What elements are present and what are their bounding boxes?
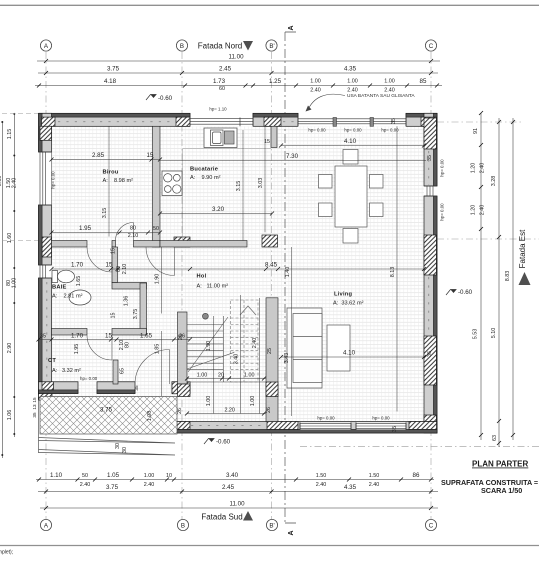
stove bbox=[162, 171, 182, 196]
pier hatch hol NW bbox=[174, 237, 190, 247]
interior dim texts bbox=[40, 138, 357, 357]
svg-text:3.15: 3.15 bbox=[236, 181, 242, 192]
svg-text:B': B' bbox=[269, 523, 274, 530]
stair dims bbox=[187, 295, 266, 414]
up arrow bbox=[240, 306, 256, 315]
ROOM LABELS bbox=[48, 167, 364, 382]
svg-text:hp= 1.10: hp= 1.10 bbox=[209, 107, 227, 112]
svg-text:2.40: 2.40 bbox=[369, 482, 380, 488]
svg-text:B': B' bbox=[269, 43, 274, 50]
interior partition P1 birou/bucatarie bbox=[153, 126, 161, 247]
svg-text:hp= 0.00: hp= 0.00 bbox=[80, 376, 98, 381]
stair break lines bbox=[188, 317, 228, 372]
svg-text:4.35: 4.35 bbox=[344, 484, 357, 491]
facade labels bbox=[198, 41, 531, 522]
kitchen window top wall bbox=[190, 118, 253, 127]
section line A-A bbox=[285, 25, 296, 535]
svg-text:hp= 0.00: hp= 0.00 bbox=[344, 128, 362, 133]
svg-text:Fatada Nord: Fatada Nord bbox=[198, 42, 242, 51]
svg-text:1.70: 1.70 bbox=[71, 262, 84, 269]
svg-text:2.40: 2.40 bbox=[480, 163, 486, 174]
pier hatch hol NE bbox=[262, 235, 278, 247]
svg-text:80: 80 bbox=[130, 226, 136, 232]
svg-text:80: 80 bbox=[125, 342, 131, 348]
svg-text:15: 15 bbox=[147, 152, 154, 159]
baie window left wall bbox=[39, 265, 52, 278]
svg-text:2.45: 2.45 bbox=[219, 66, 232, 73]
svg-text:1.00: 1.00 bbox=[144, 473, 155, 479]
svg-text:2.90: 2.90 bbox=[7, 343, 13, 354]
partition P2 baie stub bbox=[112, 247, 118, 283]
svg-text:2.40: 2.40 bbox=[480, 205, 486, 216]
svg-text:hp= 0.00: hp= 0.00 bbox=[440, 159, 445, 177]
svg-text:35: 35 bbox=[427, 155, 433, 161]
svg-text:20: 20 bbox=[218, 373, 224, 379]
svg-text:3.75: 3.75 bbox=[107, 66, 120, 73]
svg-text:2.40: 2.40 bbox=[347, 88, 358, 94]
pier hatch at B' bbox=[264, 117, 281, 126]
svg-text:15: 15 bbox=[105, 333, 112, 340]
SOFA living bbox=[287, 308, 322, 388]
left wall pier hatch bottom corner bbox=[39, 389, 53, 400]
svg-text:1.00: 1.00 bbox=[206, 396, 212, 407]
svg-text:hp= 0.00: hp= 0.00 bbox=[317, 416, 335, 421]
svg-text:1.00: 1.00 bbox=[197, 373, 208, 379]
svg-text:2.10: 2.10 bbox=[122, 264, 128, 275]
svg-text:C: C bbox=[429, 43, 434, 50]
svg-text:2.40: 2.40 bbox=[80, 482, 91, 488]
bottom wall CT/hol south bbox=[39, 382, 191, 394]
svg-text:4.18: 4.18 bbox=[104, 78, 117, 85]
svg-text:hp= 0.00: hp= 0.00 bbox=[372, 416, 390, 421]
svg-text:4.10: 4.10 bbox=[344, 138, 357, 145]
interior wall HW4 bucatarie south bbox=[160, 241, 247, 248]
svg-text:3.40: 3.40 bbox=[226, 472, 239, 479]
svg-text:1.15: 1.15 bbox=[7, 129, 13, 140]
svg-text:8.60: 8.60 bbox=[0, 176, 3, 187]
coffee table bbox=[327, 325, 350, 371]
top wall band A-B and B-B' bbox=[39, 113, 437, 126]
svg-text:25: 25 bbox=[267, 348, 273, 354]
svg-text:26: 26 bbox=[177, 408, 183, 414]
partition P3 bbox=[140, 283, 147, 335]
wall HW2 bbox=[112, 283, 147, 290]
svg-text:B: B bbox=[180, 43, 184, 50]
svg-text:3.20: 3.20 bbox=[212, 206, 225, 213]
svg-text:35: 35 bbox=[392, 426, 398, 432]
svg-text:50: 50 bbox=[82, 473, 88, 479]
svg-text:3.43: 3.43 bbox=[284, 353, 290, 364]
svg-text:A: 11.00 m²: A: 11.00 m² bbox=[197, 284, 229, 290]
newel post circle bbox=[203, 313, 209, 319]
svg-text:35: 35 bbox=[32, 412, 37, 418]
BAIE toilet bbox=[52, 270, 75, 283]
right wall window bbox=[424, 186, 437, 196]
svg-text:1.65: 1.65 bbox=[76, 276, 82, 287]
bottom frame line bbox=[0, 545, 539, 547]
svg-text:A: A bbox=[288, 530, 295, 535]
svg-text:1.73: 1.73 bbox=[213, 78, 226, 85]
svg-text:omplet);: omplet); bbox=[0, 550, 13, 556]
svg-text:35: 35 bbox=[391, 118, 397, 124]
svg-text:A: 2.81 m²: A: 2.81 m² bbox=[52, 294, 83, 300]
svg-text:35: 35 bbox=[40, 334, 46, 340]
bottom wall living + stairs bbox=[177, 422, 437, 434]
hp labels under top glass doors bbox=[308, 128, 399, 133]
svg-text:-0.60: -0.60 bbox=[458, 289, 473, 296]
svg-text:2.85: 2.85 bbox=[92, 152, 105, 159]
svg-text:63: 63 bbox=[492, 435, 498, 441]
corner pier hatch A bbox=[40, 117, 55, 140]
svg-text:1.25: 1.25 bbox=[269, 78, 282, 85]
living south windows bbox=[300, 423, 406, 430]
DIMENSIONS BOTTOM bbox=[36, 480, 438, 509]
right wall base bbox=[424, 113, 437, 433]
svg-text:36: 36 bbox=[427, 351, 433, 357]
svg-text:2.45: 2.45 bbox=[222, 484, 235, 491]
KITCHEN counter and sink bbox=[204, 128, 237, 148]
door arc hol big bbox=[146, 247, 175, 276]
BAIE sink bbox=[69, 290, 91, 305]
birou width row bbox=[39, 126, 427, 416]
terrace step triangles bbox=[39, 400, 176, 455]
svg-text:Living: Living bbox=[334, 292, 353, 298]
svg-text:2.40: 2.40 bbox=[12, 178, 18, 189]
svg-text:BAIE: BAIE bbox=[52, 285, 67, 291]
STAIRS bbox=[187, 316, 266, 382]
svg-text:Hol: Hol bbox=[197, 274, 207, 280]
svg-text:1.05: 1.05 bbox=[107, 472, 120, 479]
svg-text:A: 33.62 m²: A: 33.62 m² bbox=[333, 301, 364, 307]
svg-text:2.20: 2.20 bbox=[224, 408, 235, 414]
level mark -0.60 top bbox=[146, 95, 173, 103]
svg-text:1.50: 1.50 bbox=[316, 473, 327, 479]
kitchen tile boundary bbox=[183, 149, 271, 241]
svg-text:10: 10 bbox=[166, 473, 172, 479]
svg-text:1.20: 1.20 bbox=[471, 163, 477, 174]
svg-text:1.95: 1.95 bbox=[79, 225, 92, 232]
svg-text:4.35: 4.35 bbox=[344, 66, 357, 73]
svg-text:4.10: 4.10 bbox=[343, 350, 356, 357]
svg-text:A: 8.98 m²: A: 8.98 m² bbox=[103, 178, 134, 184]
svg-text:60: 60 bbox=[219, 86, 225, 92]
svg-text:91: 91 bbox=[473, 128, 479, 134]
svg-text:2.40: 2.40 bbox=[252, 338, 258, 349]
terrace hatch bbox=[40, 397, 177, 435]
title block bbox=[441, 460, 538, 496]
svg-text:3.28: 3.28 bbox=[491, 176, 497, 187]
svg-text:8.45: 8.45 bbox=[265, 262, 278, 269]
wall stub P6 below top wall bbox=[271, 126, 277, 147]
svg-text:1.90: 1.90 bbox=[206, 341, 212, 352]
svg-text:2.10: 2.10 bbox=[128, 233, 139, 239]
DIMENSIONS RIGHT bbox=[481, 113, 513, 447]
svg-text:CT: CT bbox=[48, 358, 56, 364]
svg-text:65: 65 bbox=[120, 368, 126, 374]
DIMENSIONS TOP bbox=[35, 61, 442, 86]
svg-text:15: 15 bbox=[111, 248, 117, 254]
door arc ct bbox=[87, 335, 112, 360]
door arc baie bbox=[87, 247, 112, 272]
svg-text:1.00: 1.00 bbox=[347, 79, 358, 85]
svg-text:Fatada Sud: Fatada Sud bbox=[201, 513, 242, 522]
pier hatch at B bbox=[176, 117, 190, 126]
floor texture interior bbox=[52, 126, 425, 421]
svg-text:3.40: 3.40 bbox=[234, 354, 240, 365]
wall HW3 ct north bbox=[52, 329, 88, 336]
svg-text:USA BATANTA SAU GLISANTA: USA BATANTA SAU GLISANTA bbox=[347, 93, 415, 99]
svg-text:hp= 0.00: hp= 0.00 bbox=[381, 128, 399, 133]
svg-text:2.40: 2.40 bbox=[144, 482, 155, 488]
svg-text:1.00: 1.00 bbox=[244, 373, 255, 379]
svg-text:1.90: 1.90 bbox=[155, 274, 161, 285]
svg-text:1.10: 1.10 bbox=[50, 472, 63, 479]
svg-text:5.53: 5.53 bbox=[473, 329, 479, 340]
svg-text:1.40: 1.40 bbox=[285, 267, 291, 278]
svg-text:13: 13 bbox=[32, 404, 37, 410]
corner pier hatch C bbox=[421, 117, 437, 126]
svg-text:A: A bbox=[288, 25, 295, 30]
svg-text:1.85: 1.85 bbox=[155, 344, 161, 355]
svg-text:1.20: 1.20 bbox=[471, 205, 477, 216]
svg-text:1.00: 1.00 bbox=[310, 79, 321, 85]
svg-text:A: 9.90 m²: A: 9.90 m² bbox=[190, 175, 221, 181]
right wall pier hatches bbox=[424, 118, 436, 149]
svg-text:15: 15 bbox=[111, 313, 117, 319]
svg-text:35: 35 bbox=[134, 385, 139, 391]
dark thermal strip top bbox=[39, 113, 190, 117]
svg-text:Birou: Birou bbox=[103, 170, 119, 176]
svg-text:26: 26 bbox=[266, 407, 272, 413]
door arc birou bbox=[116, 223, 134, 241]
left wall base bbox=[39, 113, 52, 400]
svg-text:1.36: 1.36 bbox=[124, 296, 130, 307]
svg-text:PLAN PARTER: PLAN PARTER bbox=[472, 460, 529, 469]
axis grid dashed lines bbox=[46, 52, 539, 519]
svg-text:3.03: 3.03 bbox=[258, 178, 264, 189]
svg-text:8.13: 8.13 bbox=[390, 267, 396, 278]
svg-text:30: 30 bbox=[122, 447, 128, 453]
svg-text:Bucatarie: Bucatarie bbox=[190, 167, 218, 173]
svg-text:3.75: 3.75 bbox=[106, 484, 119, 491]
door arc entry bbox=[135, 350, 170, 385]
svg-text:15: 15 bbox=[106, 262, 113, 269]
svg-text:1.08: 1.08 bbox=[147, 411, 153, 422]
svg-text:1.00: 1.00 bbox=[384, 79, 395, 85]
level mark -0.60 right bbox=[446, 289, 473, 296]
svg-text:hp= 0.00: hp= 0.00 bbox=[51, 171, 56, 189]
svg-text:1.65: 1.65 bbox=[140, 333, 153, 340]
svg-text:C: C bbox=[429, 523, 434, 530]
svg-text:15: 15 bbox=[32, 397, 37, 403]
left wall pier hatch mid bbox=[42, 237, 51, 257]
svg-text:2.40: 2.40 bbox=[310, 88, 321, 94]
svg-text:SCARA 1/50: SCARA 1/50 bbox=[481, 486, 522, 495]
small ticks interior bbox=[37, 144, 427, 360]
svg-text:3.75: 3.75 bbox=[100, 407, 113, 414]
svg-text:Fatada Est: Fatada Est bbox=[518, 229, 527, 268]
axis circle A top bbox=[40, 40, 436, 531]
interior wall HW1 bbox=[52, 241, 88, 248]
svg-text:2.40: 2.40 bbox=[384, 88, 395, 94]
svg-text:86: 86 bbox=[413, 472, 420, 479]
svg-text:50: 50 bbox=[153, 226, 159, 232]
axis circles bottom bbox=[40, 519, 51, 530]
svg-text:1.50: 1.50 bbox=[369, 473, 380, 479]
svg-text:11.00: 11.00 bbox=[228, 54, 244, 61]
svg-text:1.00: 1.00 bbox=[250, 396, 256, 407]
svg-text:1.95: 1.95 bbox=[74, 344, 80, 355]
svg-text:2.40: 2.40 bbox=[316, 482, 327, 488]
DIMENSIONS LEFT bbox=[2, 113, 14, 458]
stair east / living west wall P5 bbox=[266, 298, 278, 422]
svg-text:hp= 0.00: hp= 0.00 bbox=[308, 128, 326, 133]
svg-text:3.75: 3.75 bbox=[133, 309, 139, 320]
svg-text:1.60: 1.60 bbox=[7, 233, 13, 244]
svg-text:1.00: 1.00 bbox=[12, 278, 18, 289]
stair west wall P4 bbox=[178, 312, 188, 384]
svg-text:85: 85 bbox=[420, 78, 427, 85]
svg-text:3.15: 3.15 bbox=[102, 208, 108, 219]
level mark -0.60 bottom center bbox=[204, 439, 231, 446]
DINING table bbox=[319, 150, 384, 244]
svg-text:30: 30 bbox=[115, 443, 121, 449]
sliding glass doors top wall B'-C bbox=[298, 118, 406, 127]
svg-text:B: B bbox=[181, 523, 185, 530]
svg-text:hp= 0.00: hp= 0.00 bbox=[440, 203, 445, 221]
svg-text:-0.60: -0.60 bbox=[158, 95, 173, 102]
svg-text:26: 26 bbox=[179, 334, 185, 340]
label usa batanta with leader bbox=[306, 93, 416, 112]
birou window left wall bbox=[39, 152, 52, 205]
svg-text:1.70: 1.70 bbox=[71, 333, 84, 340]
svg-text:8.83: 8.83 bbox=[505, 271, 511, 282]
svg-text:A: 3.32 m²: A: 3.32 m² bbox=[52, 368, 81, 374]
svg-text:-0.60: -0.60 bbox=[216, 439, 231, 446]
svg-text:7.30: 7.30 bbox=[286, 153, 299, 160]
masonry ticks top wall bbox=[58, 121, 175, 123]
dashed upper flight bbox=[231, 300, 259, 382]
top frame line bbox=[0, 4, 539, 6]
svg-text:1.06: 1.06 bbox=[7, 410, 13, 421]
svg-text:5.10: 5.10 bbox=[491, 328, 497, 339]
svg-text:11.00: 11.00 bbox=[229, 501, 245, 508]
